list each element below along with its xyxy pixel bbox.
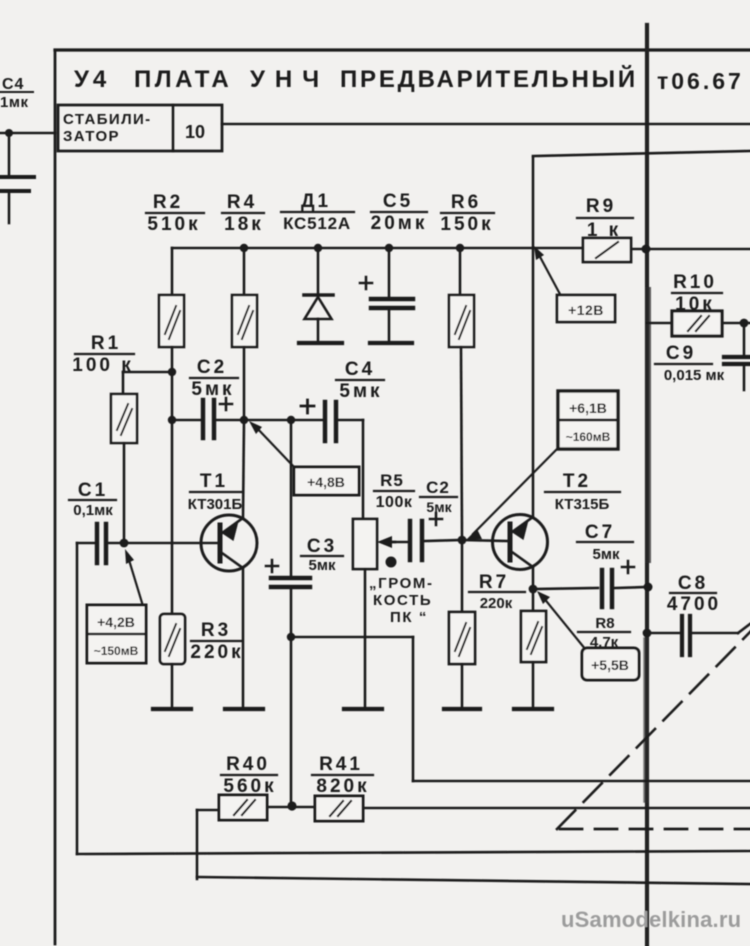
svg-text:5мк: 5мк <box>593 546 620 563</box>
+6,1В / ~160мВ measurement box with callout arrow <box>473 447 559 534</box>
svg-text:С5: С5 <box>383 191 413 212</box>
svg-text:510к: 510к <box>147 214 200 235</box>
svg-text:R6: R6 <box>451 192 481 213</box>
resistor R1 <box>111 394 137 443</box>
capacitor C5 <box>388 248 391 296</box>
wire R6 bottom to T2 base node <box>461 347 462 540</box>
svg-text:5мк: 5мк <box>191 379 234 400</box>
svg-text:+4,8В: +4,8В <box>307 474 345 490</box>
capacitor C1 <box>77 542 95 545</box>
svg-text:150к: 150к <box>440 214 493 235</box>
ground bar under C5 <box>370 341 412 345</box>
svg-text:СТАБИЛИ-: СТАБИЛИ- <box>63 111 152 128</box>
svg-text:т06.67: т06.67 <box>657 68 744 94</box>
resistor R7 <box>461 540 464 612</box>
capacitor C4 (left margin) plates <box>0 175 34 179</box>
svg-text:R2: R2 <box>153 192 183 213</box>
board frame left edge <box>54 50 57 944</box>
capacitor C2 (volume) polarity plus <box>430 513 442 525</box>
node dot R40/R41/C3 branch <box>287 801 296 810</box>
ground bar under D1 <box>299 341 342 345</box>
T2 emitter lead <box>512 552 533 567</box>
wire T2 collector up to bus corner <box>532 248 535 517</box>
capacitor C2 (volume) <box>408 521 412 560</box>
svg-text:С1: С1 <box>78 480 108 501</box>
resistor R41 <box>315 796 363 821</box>
capacitor C4 <box>323 402 327 441</box>
svg-text:R3: R3 <box>201 620 231 641</box>
svg-text:10: 10 <box>185 122 205 142</box>
wire dot to capacitor C4 <box>8 133 11 175</box>
capacitor C3 <box>271 576 310 580</box>
+5,5В measurement box with callout arrow <box>543 597 586 650</box>
wire long horizontal y=781 <box>413 780 750 783</box>
wire C1 left down to bottom rail <box>76 543 79 854</box>
wire C3 node jog right and down <box>291 636 413 639</box>
wire R7 bottom to ground <box>461 664 464 707</box>
+4,8В measurement box with callout arrow <box>256 427 295 468</box>
wire R3 bottom to ground <box>171 664 174 707</box>
resistor R3 <box>160 614 185 664</box>
svg-text:ПЛАТА: ПЛАТА <box>134 66 232 93</box>
node dot C5/bus <box>385 244 393 252</box>
wire R1 top branch to R2 node <box>123 371 173 374</box>
wire T2 emitter to C7 <box>533 588 598 589</box>
resistor R9 (horizontal, in series with bus) <box>533 247 583 250</box>
wire R2/C2 node down to R3 <box>171 420 174 614</box>
svg-text:R10: R10 <box>673 272 717 293</box>
transistor T2 <box>493 515 548 570</box>
svg-text:R8: R8 <box>595 615 614 632</box>
wire into R40 from left drop <box>197 809 219 812</box>
wire wiper to C2v <box>390 541 408 544</box>
wire R5 bottom to ground <box>364 569 367 707</box>
svg-text:С4: С4 <box>345 359 375 380</box>
wire C1 to T1 base (with node dot) <box>108 542 218 545</box>
svg-text:ЗАТОР: ЗАТОР <box>63 128 120 145</box>
board frame top edge <box>55 48 750 51</box>
wire R40 left drop down <box>196 810 199 879</box>
dashed horizontal line y=829 <box>560 828 750 831</box>
resistor R4 <box>243 248 246 295</box>
capacitor C3 polarity plus <box>266 560 278 572</box>
wire C3 down to bottom node <box>290 589 293 806</box>
capacitor C7 polarity plus <box>622 561 634 573</box>
ground bar under R8 <box>514 707 552 711</box>
R5 wiper arrow <box>382 541 395 544</box>
wire C7 to divider <box>614 587 647 588</box>
+4,2В measurement box with callout arrow <box>129 560 143 606</box>
svg-text:С3: С3 <box>307 536 337 557</box>
node dot C3 top <box>287 416 295 424</box>
wire divider to R10 <box>647 322 672 325</box>
svg-text:820к: 820к <box>316 776 369 797</box>
svg-text:~150мВ: ~150мВ <box>94 644 139 658</box>
node dot T2 base / R6 / R7 <box>458 536 467 545</box>
potentiometer R5 <box>353 519 377 569</box>
node dot R10/C9 <box>740 319 749 328</box>
svg-text:R41: R41 <box>319 754 363 775</box>
capacitor C9 <box>743 323 746 355</box>
svg-text:0,015 мк: 0,015 мк <box>664 367 725 384</box>
svg-text:С4: С4 <box>2 76 24 93</box>
+12V supply bus wire <box>172 247 533 250</box>
wire below capacitor C4 <box>8 191 11 223</box>
resistor R40 <box>219 795 267 820</box>
R5 wiper terminal dot <box>386 557 397 568</box>
svg-text:5мк: 5мк <box>309 557 336 574</box>
svg-text:С2: С2 <box>197 357 227 378</box>
svg-text:1мк: 1мк <box>0 94 28 111</box>
supply bus wire right section <box>631 248 750 251</box>
capacitor C7 <box>600 570 604 607</box>
resistor R2 <box>171 248 174 295</box>
capacitor C8 <box>647 632 680 635</box>
svg-text:ПРЕДВАРИТЕЛЬНЫЙ: ПРЕДВАРИТЕЛЬНЫЙ <box>340 65 638 93</box>
svg-text:+4,2В: +4,2В <box>97 614 135 630</box>
svg-text:КОСТЬ: КОСТЬ <box>373 592 432 609</box>
wire +12V feed upper right (from bus corner up and right) <box>532 157 535 248</box>
wire R10 right to edge <box>722 322 750 325</box>
capacitor C4 polarity plus <box>301 400 314 413</box>
node dot C7 / divider <box>644 583 653 592</box>
dashed diagonal line (board boundary) <box>557 630 750 829</box>
node dot T2 emitter / C7 / R8 <box>529 585 538 594</box>
wire T1 emitter down to ground <box>242 568 245 707</box>
stabilizer block СТАБИЛИЗАТОР <box>58 105 222 151</box>
svg-text:УНЧ: УНЧ <box>250 66 329 93</box>
capacitor C2 <box>172 419 201 422</box>
wire R41 right long horizontal y=808 <box>363 807 750 810</box>
wire T2 base <box>462 540 508 541</box>
svg-text:У4: У4 <box>74 66 110 93</box>
svg-text:С2: С2 <box>426 478 450 497</box>
wire R4 bottom to node <box>243 347 246 420</box>
ground bar under R5 <box>344 707 382 711</box>
T2 collector lead with arrow mark <box>512 517 533 532</box>
node dot C8 / divider <box>643 629 652 638</box>
svg-text:Т2: Т2 <box>563 471 591 492</box>
capacitor C2 polarity plus <box>220 398 232 410</box>
resistor R6 <box>459 248 462 295</box>
svg-text:5мк: 5мк <box>426 499 452 515</box>
wire R2 bottom to node <box>171 347 174 372</box>
node junction dot left margin <box>5 129 13 137</box>
svg-text:С7: С7 <box>585 522 615 543</box>
svg-text:R9: R9 <box>586 196 616 217</box>
node dot C2 left <box>168 416 176 424</box>
wire R8 bottom to ground <box>532 662 535 707</box>
node dot R1/R2 <box>168 368 176 376</box>
wire left margin into frame <box>0 132 55 135</box>
svg-text:20мк: 20мк <box>371 213 428 234</box>
resistor R8 <box>521 611 546 662</box>
zener diode D1 <box>317 248 320 294</box>
svg-text:18к: 18к <box>224 214 264 235</box>
svg-text:КТ301Б: КТ301Б <box>188 496 243 513</box>
resistor R10 <box>672 311 722 336</box>
title bar bottom line <box>222 123 750 126</box>
svg-text:R1: R1 <box>91 333 121 354</box>
svg-text:Т1: Т1 <box>200 471 228 492</box>
wire T2 emitter down to node <box>532 567 535 611</box>
svg-text:R5: R5 <box>380 471 404 490</box>
svg-text:220к: 220к <box>190 642 243 663</box>
svg-text:+5,5В: +5,5В <box>591 657 629 673</box>
ground bar under T1 emitter <box>225 707 263 711</box>
wire C4 to R5 corner <box>338 419 363 422</box>
ground bar under R3 <box>153 707 191 711</box>
svg-text:R4: R4 <box>227 192 257 213</box>
+12V callout arrow <box>539 255 561 296</box>
node dot D1/bus <box>314 244 322 252</box>
node dot C3 bottom jog <box>287 633 295 641</box>
svg-text:„ГРОМ-: „ГРОМ- <box>369 575 434 592</box>
svg-text:100к: 100к <box>376 494 413 511</box>
wire long horizontal y=879 <box>197 877 750 884</box>
capacitor C5 polarity plus <box>360 277 372 289</box>
svg-text:ПК “: ПК “ <box>390 609 428 626</box>
wire R2 node down to C2 node <box>171 372 174 420</box>
transistor T1 <box>201 515 257 571</box>
svg-text:5мк: 5мк <box>339 381 382 402</box>
svg-text:С9: С9 <box>666 343 696 364</box>
svg-text:КТ315Б: КТ315Б <box>555 496 610 513</box>
svg-text:R7: R7 <box>479 572 509 593</box>
svg-text:R40: R40 <box>226 754 270 775</box>
wire C8 right with kink to edge <box>692 632 738 635</box>
svg-text:uSamodelkina.ru: uSamodelkina.ru <box>561 907 741 932</box>
node dot T1 base / C1 / R1 <box>120 539 129 548</box>
wire R1 bottom to base node <box>123 443 126 543</box>
wire node to C4 <box>244 419 323 422</box>
wire long horizontal y=854 (from C1 left drop) <box>77 851 750 854</box>
node dot bus/divider <box>642 245 651 254</box>
wire R40 to R41 <box>267 806 315 809</box>
svg-text:4700: 4700 <box>667 594 721 615</box>
section divider heavy vertical line x=646 <box>645 25 649 946</box>
wire T1 collector up to node <box>243 420 244 518</box>
wire C4 node down to C3 <box>290 420 293 576</box>
svg-text:+12В: +12В <box>568 302 604 318</box>
node dot R4/bus <box>240 244 248 252</box>
svg-text:~160мВ: ~160мВ <box>566 430 611 444</box>
svg-text:КС512А: КС512А <box>283 214 351 233</box>
+12V measurement box <box>557 295 615 322</box>
svg-text:Д1: Д1 <box>301 191 331 212</box>
svg-text:0,1мк: 0,1мк <box>73 502 113 519</box>
svg-text:+6,1В: +6,1В <box>569 400 607 416</box>
node dot collector T1 / R4 / C4 <box>240 416 248 424</box>
ground bar under R7 <box>444 707 480 711</box>
svg-text:220к: 220к <box>480 595 513 612</box>
svg-text:С8: С8 <box>678 573 708 594</box>
node dot R6/bus <box>456 244 464 252</box>
wire C2v to T2 base node <box>424 540 462 541</box>
